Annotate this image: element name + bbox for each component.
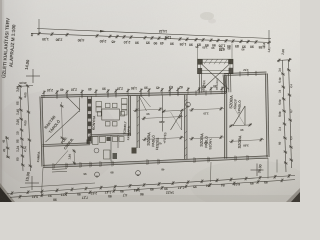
storeroom lower door swing (55, 151, 68, 166)
interior wall rooms 1-2 hatched (185, 95, 187, 160)
ticks above top wall (43, 90, 45, 98)
wall junction right-section (224, 75, 226, 94)
porch corner post right (228, 59, 233, 64)
outer wall right (267, 74, 269, 158)
circled door number 1 (95, 172, 100, 177)
bottom dimension line 1 (7, 176, 295, 194)
kitchen cabinet column (96, 102, 102, 107)
dark table corner bottom-left (0, 183, 15, 202)
bathroom walls (90, 134, 131, 136)
kamra interior dim line (73, 149, 76, 165)
kitchen table (102, 109, 120, 120)
bottom dimension line 2 (10, 180, 295, 198)
left dimension ticks (18, 84, 22, 87)
kitchen chairs (106, 103, 111, 108)
bath fixtures (93, 137, 99, 145)
paper grain (0, 0, 300, 202)
cupboard row right of kitchen (122, 99, 128, 105)
door swing mid (141, 95, 151, 107)
right dimension top tick line (277, 59, 292, 62)
outer wall top (41, 93, 226, 97)
interior wall rooms 2-3 (225, 76, 227, 159)
pantry door swing (139, 97, 146, 112)
left dimension line pair (20, 85, 23, 171)
room3 door swing triangle (244, 106, 246, 125)
circled door number room2 (186, 102, 191, 107)
porch corner post left (198, 59, 203, 64)
room1 inner dim line (142, 117, 184, 119)
room2 door dim line (162, 110, 184, 111)
bottom dimension ticks (10, 191, 13, 195)
porch steps bottom (52, 168, 67, 171)
outer wall right-section top (224, 73, 267, 75)
annex connector verticals to dim line (197, 44, 199, 59)
right dimension line pair (283, 60, 287, 172)
paper bottom edge shading (0, 195, 300, 202)
right dimension ticks (281, 72, 285, 75)
interior wall kitchen-east (129, 96, 131, 136)
room2 door swing triangle (181, 112, 183, 130)
room3 mid dim line (229, 140, 264, 142)
interior dim line upper corridor (133, 109, 163, 111)
bottom vertical connectors (42, 168, 44, 196)
dark table corner bottom-right (286, 188, 300, 202)
far-left small dimension line (7, 136, 9, 158)
porch hatching (204, 59, 207, 64)
interior dim line room2 top (189, 109, 224, 111)
outer wall left (41, 97, 43, 167)
bottom wall window ticks (52, 163, 54, 169)
right section top wall window ticks (239, 71, 241, 76)
top dimension line 2 (31, 33, 271, 42)
paper left edge shadow (0, 0, 2, 202)
room1 mid dim line (142, 138, 184, 140)
dark furniture block hallway (132, 148, 137, 154)
porch door swing cross (202, 65, 229, 90)
room3 door dim line (229, 125, 252, 126)
interior wall pantry (137, 96, 139, 148)
top dimension ticks (37, 32, 40, 36)
bath inner wall (110, 135, 112, 162)
porch annex walls (198, 59, 234, 73)
storeroom inner dim line (62, 102, 63, 142)
storeroom diagonal strike (46, 111, 80, 142)
chimney wall hatched (88, 96, 91, 143)
bottom dimension short line left (20, 183, 95, 188)
interior wall horizontal storeroom (43, 144, 91, 146)
top wall window ticks (56, 94, 58, 99)
circled door number 2 (136, 171, 141, 176)
interior wall mid-partial (161, 95, 163, 131)
room2 mid dim line (189, 137, 224, 139)
outer wall bottom (43, 157, 268, 167)
porch open side walls (198, 74, 200, 93)
top dimension line 1 (37, 29, 271, 39)
faint stain top middle-right (200, 12, 214, 20)
front door swing left (67, 97, 80, 110)
